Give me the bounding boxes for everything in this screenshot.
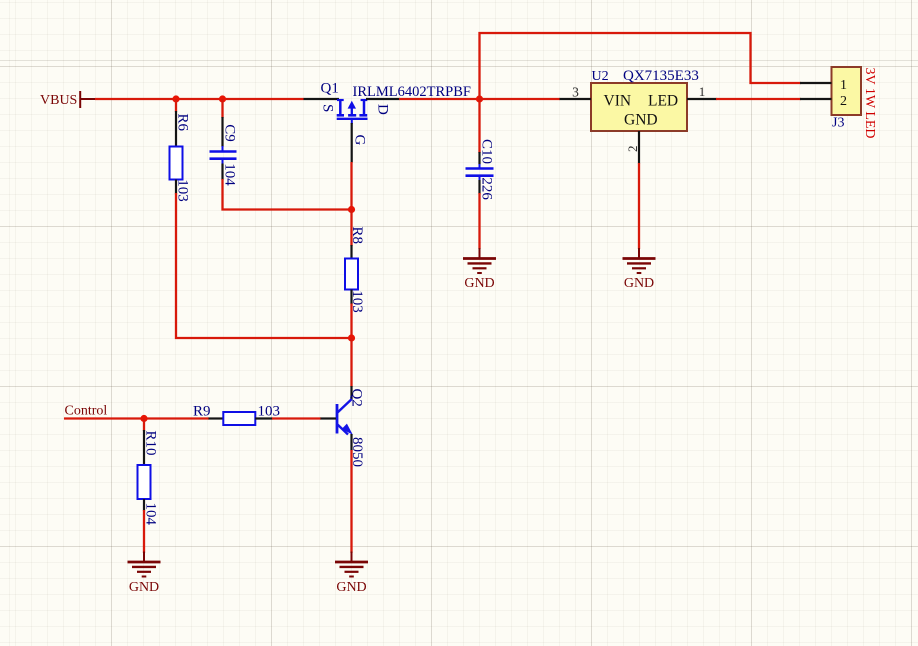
value 103 of R8 [349, 290, 365, 313]
resistor R9 [209, 412, 273, 425]
wire VBUS to Q1 source [95, 98, 304, 100]
svg-text:G: G [352, 135, 368, 146]
svg-text:C9: C9 [222, 124, 238, 142]
U2 pin 1 (LED) [687, 84, 717, 99]
net label Control [65, 403, 108, 418]
U2 pin 3 (VIN) [560, 84, 592, 99]
junction gate node [348, 206, 355, 213]
svg-text:1: 1 [699, 84, 706, 99]
svg-text:GND: GND [336, 580, 366, 595]
transistor Q1 (P-MOSFET IRLML6402) [304, 99, 400, 163]
value QX7135E33 [623, 68, 699, 84]
svg-text:2: 2 [840, 94, 847, 109]
value 3V 1W LED [862, 68, 877, 139]
wire C9 bottom to gate node [223, 179, 352, 210]
wire Control to R9 [64, 417, 209, 419]
U2 pin 2 (GND) [625, 131, 640, 164]
label C9 [222, 124, 238, 142]
value IRLML6402TRPBF [353, 84, 471, 100]
pin label G [352, 135, 368, 146]
svg-text:GND: GND [464, 276, 494, 291]
svg-text:R10: R10 [143, 431, 159, 456]
wire Q2 emitter to ground [350, 450, 352, 553]
junction at R6 top [172, 95, 179, 102]
junction collector node [348, 334, 355, 341]
wire R6 bottom to collector node [176, 193, 352, 338]
pin label S [320, 104, 336, 112]
label Q2 [349, 389, 365, 407]
value 8050 of Q2 [349, 437, 365, 467]
svg-text:GND: GND [129, 580, 159, 595]
wire collector node to Q2 [350, 338, 352, 387]
J3 pin 2 lead [800, 98, 832, 100]
wire U2 pin1 to J3 pin2 [716, 98, 801, 100]
svg-text:GND: GND [624, 276, 654, 291]
svg-text:C10: C10 [479, 139, 495, 164]
svg-text:1: 1 [840, 78, 847, 93]
transistor Q2 (NPN 8050) [320, 386, 353, 451]
J3 pin 1 lead [800, 82, 832, 84]
junction Control / R10 [140, 415, 147, 422]
svg-text:LED: LED [648, 93, 678, 110]
capacitor C9 [210, 99, 237, 180]
ground GND at C10 [463, 248, 496, 291]
wire Q1 gate to gate node [350, 162, 352, 210]
label R8 [349, 227, 365, 245]
ground GND at Q2 [335, 552, 368, 595]
net label VBUS [40, 91, 96, 108]
svg-text:QX7135E33: QX7135E33 [623, 68, 699, 84]
svg-text:226: 226 [479, 177, 495, 200]
wire R9 to Q2 base [272, 417, 321, 419]
value 103 of R9 [258, 403, 281, 419]
wire C10 node to U2 VIN [480, 98, 561, 100]
svg-text:103: 103 [258, 403, 281, 419]
wire Q1 drain to C10 node [399, 98, 480, 100]
IC U2 QX7135E33 [591, 83, 687, 131]
connector J3 [832, 67, 862, 115]
resistor R8 [345, 210, 358, 339]
svg-text:GND: GND [624, 112, 658, 129]
label U2 [592, 69, 609, 84]
label R9 [193, 403, 211, 419]
svg-text:3V 1W LED: 3V 1W LED [862, 68, 877, 139]
label J3 [832, 116, 844, 131]
wire C10 node up and over to J3 pin 1 [480, 33, 802, 99]
label R6 [175, 114, 191, 132]
resistor R6 [170, 99, 183, 194]
wire C10 bottom to ground [478, 193, 480, 249]
svg-text:3: 3 [572, 84, 579, 99]
svg-text:Q1: Q1 [321, 81, 339, 97]
svg-text:R6: R6 [175, 114, 191, 132]
junction C10 node [476, 95, 483, 102]
svg-text:U2: U2 [592, 69, 609, 84]
capacitor C10 [466, 152, 494, 194]
junction at C9 top [219, 95, 226, 102]
label Q1 [321, 81, 339, 97]
pin label D [375, 104, 391, 115]
svg-text:R9: R9 [193, 403, 211, 419]
svg-text:Q2: Q2 [349, 389, 365, 407]
svg-text:VIN: VIN [604, 93, 632, 110]
ground GND at R10 [128, 552, 161, 595]
value 226 of C10 [479, 177, 495, 200]
ground GND at U2 [623, 248, 656, 291]
wire U2 GND pin to ground [638, 163, 640, 249]
wire R10 to ground [143, 510, 145, 553]
svg-text:VBUS: VBUS [40, 93, 77, 108]
svg-text:104: 104 [222, 163, 238, 186]
wire C10 top [478, 99, 480, 153]
resistor R10 [138, 419, 151, 512]
label R10 [143, 431, 159, 456]
svg-text:103: 103 [349, 290, 365, 313]
value 104 of R10 [143, 503, 159, 526]
svg-text:Control: Control [65, 403, 108, 418]
value 103 of R6 [175, 179, 191, 202]
svg-text:R8: R8 [349, 227, 365, 245]
value 104 of C9 [222, 163, 238, 186]
svg-text:S: S [320, 104, 336, 112]
svg-text:D: D [375, 104, 391, 115]
svg-text:IRLML6402TRPBF: IRLML6402TRPBF [353, 84, 471, 100]
svg-text:2: 2 [625, 146, 640, 153]
svg-text:J3: J3 [832, 116, 844, 131]
label C10 [479, 139, 495, 164]
